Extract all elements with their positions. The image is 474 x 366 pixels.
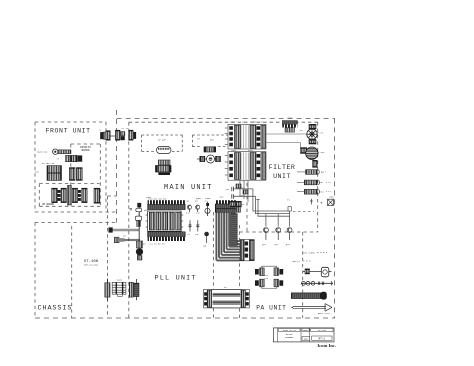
wire filter to mic [267, 142, 301, 144]
svg-text:R21: R21 [186, 212, 191, 215]
end lug [134, 132, 137, 139]
svg-text:P501: P501 [252, 120, 258, 123]
wire bundle filter to PA [234, 189, 290, 211]
transistor Q23 [287, 228, 292, 233]
small parts below block B [236, 184, 241, 188]
title cell model [311, 328, 333, 331]
ext jack SP [306, 170, 318, 175]
earphone cable assembly [301, 282, 333, 284]
connector small pair left of PA [230, 201, 235, 207]
block below [137, 256, 142, 261]
connector J1 main [115, 130, 120, 140]
PA pin pair connector [250, 240, 254, 261]
PTT vertical stub [310, 199, 312, 205]
FRONT UNIT box [35, 121, 106, 123]
svg-text:BOARD: BOARD [82, 149, 90, 152]
drop wire Q21 [265, 214, 267, 227]
svg-text:DET: DET [210, 139, 215, 142]
X2 dark band [158, 172, 170, 175]
svg-text:FILTER: FILTER [269, 164, 296, 171]
connector PLL-PA W2 [204, 289, 250, 308]
outer unit boundary [116, 110, 118, 223]
filter top connector J503 [282, 121, 297, 125]
connector P1 front [106, 131, 110, 141]
antenna hatch block [137, 221, 141, 227]
svg-text:X1 C3 R5 C8: X1 C3 R5 C8 [150, 243, 165, 246]
ext jack MIC [304, 189, 317, 194]
svg-text:PLL UNIT: PLL UNIT [155, 275, 197, 283]
svg-text:MIC: MIC [321, 151, 326, 154]
chassis right edge [107, 196, 109, 318]
svg-text:J502: J502 [231, 149, 237, 152]
bus staircase MAIN to PA [215, 212, 217, 260]
tall connector MAIN-PA [231, 214, 238, 246]
wire stub jack SP [297, 171, 306, 173]
wire stub jack EXT [297, 181, 304, 183]
svg-text:Q23: Q23 [286, 243, 291, 246]
wires below block B [239, 180, 241, 196]
X2 crystal block [156, 166, 172, 173]
svg-text:C31: C31 [226, 188, 231, 191]
svg-text:IC3: IC3 [264, 277, 269, 280]
X1 ceramic filter stack [158, 160, 170, 165]
stub wires block B [225, 155, 228, 157]
plug row2 [114, 237, 119, 243]
svg-text:J501: J501 [230, 120, 236, 123]
VR board connector cluster A [52, 188, 58, 202]
DISPLAY BOARD box [71, 143, 101, 145]
stub wires block A [225, 127, 228, 129]
connector P3 main [129, 130, 133, 140]
svg-text:AC DEL-45: AC DEL-45 [42, 162, 55, 165]
wire front-main [109, 135, 115, 137]
PA mini module A2 [274, 268, 279, 276]
svg-text:AF AMP: AF AMP [158, 138, 167, 141]
svg-text:MAIN UNIT: MAIN UNIT [164, 184, 213, 192]
transistor Q5 [204, 232, 209, 237]
equal marks [130, 207, 133, 209]
antenna ANT [291, 293, 322, 299]
IC301 body MAIN-PLL [148, 211, 182, 231]
tall connector bar [67, 186, 71, 206]
antenna cap block [137, 203, 141, 208]
svg-text:MIC: MIC [320, 191, 325, 194]
svg-text:MIC: MIC [35, 171, 40, 174]
wire filter to speaker [267, 133, 307, 135]
svg-text:SP1: SP1 [320, 131, 325, 134]
connector J301 MAIN-PLL comb top [148, 200, 186, 204]
ext jack EXT SP [304, 180, 317, 185]
IC5 audio amp capsule [157, 147, 172, 154]
svg-text:W101: W101 [117, 279, 123, 282]
svg-text:UNIT: UNIT [273, 173, 291, 180]
ext box with cross [328, 199, 334, 205]
antenna capsule [136, 208, 142, 211]
svg-text:IC-T2H: IC-T2H [318, 329, 327, 332]
svg-text:C305: C305 [205, 197, 211, 200]
PA mini module B2 [274, 279, 279, 287]
PLL UNIT box right edge [213, 212, 215, 318]
svg-text:GND: GND [330, 195, 335, 198]
svg-text:CHASSIS: CHASSIS [38, 305, 73, 313]
sub-box IF DET [192, 134, 229, 136]
svg-text:Q21: Q21 [262, 243, 267, 246]
svg-text:ICOM IC.47: ICOM IC.47 [283, 329, 297, 332]
svg-text:EXT: EXT [320, 181, 325, 184]
belt clip line [293, 306, 326, 308]
module bracket top [262, 266, 277, 268]
FILTER UNIT box [317, 122, 319, 232]
pin block PA side [240, 239, 249, 260]
chassis plug 1 [109, 227, 113, 232]
module bracket bottom [262, 287, 277, 289]
mic lower part [313, 160, 318, 167]
title cell number [312, 336, 332, 341]
connector J501 MAIN-FILTER block A [228, 124, 266, 149]
front row2 connector pair [69, 168, 75, 181]
title cell date [279, 328, 300, 331]
title cell name [302, 328, 309, 331]
sub-box AF AMP [142, 134, 183, 136]
svg-text:X301: X301 [146, 196, 152, 199]
connector J1 front [100, 132, 103, 139]
transistor Q1 main [187, 205, 191, 209]
IC8 bead [204, 147, 216, 152]
connector P2 main stacked [121, 132, 125, 136]
microphone MC1 [301, 148, 307, 154]
svg-text:Q301: Q301 [196, 197, 202, 200]
drop wire Q22 [277, 214, 279, 227]
transistor Q21 [263, 228, 268, 233]
svg-text:FRONT UNIT: FRONT UNIT [46, 127, 91, 134]
title block frame [273, 328, 334, 342]
svg-text:P502: P502 [248, 149, 254, 152]
crystal chain [207, 202, 209, 216]
PA mini module A1 [255, 269, 259, 275]
connector J302 MAIN-PLL comb bottom [148, 232, 186, 237]
PA mini module B1 [255, 280, 259, 286]
svg-text:J401: J401 [239, 203, 245, 206]
svg-text:VR BOARD: VR BOARD [42, 203, 55, 206]
T1 discriminator [197, 158, 207, 160]
title cell dwg [302, 337, 310, 341]
svg-text:BAL(?): BAL(?) [293, 260, 301, 263]
cap C9 [197, 220, 199, 231]
svg-text:DIAGRAM: DIAGRAM [285, 336, 294, 339]
CHASSIS box [35, 222, 117, 224]
svg-text:C12: C12 [196, 212, 201, 215]
jack block 2 [137, 241, 143, 248]
connector J303 MAIN-PA comb [215, 200, 236, 204]
speaker SP1 [309, 124, 316, 129]
VR board connector cluster B [72, 188, 77, 202]
wire stub jack MIC2 [297, 191, 304, 193]
transistor body dark circle [136, 248, 143, 255]
svg-text:PA UNIT: PA UNIT [256, 305, 286, 312]
svg-text:MTG SCREW: MTG SCREW [303, 251, 316, 254]
MAIN UNIT box [129, 121, 318, 123]
svg-text:J503: J503 [287, 117, 293, 120]
svg-text:(OPC-474-04): (OPC-474-04) [84, 264, 98, 267]
svg-text:NAME: NAME [303, 329, 309, 332]
wire jack to chassis [113, 228, 140, 230]
svg-text:MT-1: MT-1 [319, 338, 326, 341]
PA UNIT box [239, 225, 241, 318]
svg-text:MAIN VOL: MAIN VOL [37, 151, 48, 154]
DC cable assembly [303, 270, 321, 272]
connector J502 MAIN-FILTER block B [228, 152, 266, 181]
cap C7 [189, 220, 191, 231]
svg-text:C32: C32 [220, 195, 225, 198]
antenna box2 [135, 216, 141, 220]
transistor Q22 [276, 228, 281, 233]
display board lower connector [94, 188, 100, 203]
VR BOARD box [39, 183, 99, 185]
dashed net line [293, 210, 314, 212]
svg-text:Q22: Q22 [275, 243, 280, 246]
svg-text:P1 J2: P1 J2 [122, 127, 129, 130]
transistor Q2 main [196, 205, 200, 209]
svg-text:BELT CLIP: BELT CLIP [318, 312, 331, 315]
svg-text:+: + [320, 202, 323, 207]
svg-text:Icom Inc.: Icom Inc. [317, 343, 336, 348]
